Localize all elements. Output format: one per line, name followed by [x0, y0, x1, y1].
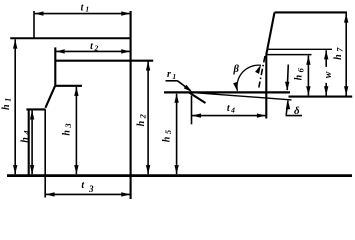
arrow t1 left: [35, 11, 44, 15]
label h6 (rotated): [294, 67, 306, 80]
line w extension y=49.3: [267, 48, 332, 50]
arrow t3 left: [46, 192, 55, 196]
r1 label underline: [166, 80, 178, 82]
label h1 (rotated): [1, 98, 13, 110]
tool left slanted edge: [266, 12, 274, 54]
svg-text:2: 2: [138, 113, 148, 119]
svg-text:4: 4: [230, 106, 235, 115]
svg-text:3: 3: [88, 184, 94, 194]
sloped back-taper edge (angle delta): [191, 92, 292, 100]
profile left vertical edge: [28, 109, 30, 175]
svg-text:h: h: [20, 137, 31, 143]
arrow w up: [324, 50, 328, 59]
profile chamfer slant: [45, 86, 55, 108]
extension line t3 left: [44, 109, 46, 197]
arrow h4 down: [30, 165, 34, 174]
arrow t4 right: [257, 113, 266, 117]
arrow h1 down: [13, 165, 17, 174]
label h7 (rotated): [333, 47, 345, 60]
arrow delta lower (points up at sloped line): [286, 100, 290, 109]
beta angle arc: [237, 65, 261, 91]
arrow t2 right: [121, 49, 130, 53]
svg-text:7: 7: [335, 47, 345, 52]
arrow h7 down: [344, 86, 348, 95]
r1 leader line: [178, 81, 191, 91]
extension line t1 left: [33, 11, 35, 38]
svg-text:5: 5: [163, 129, 173, 134]
dash-dot reference line for angle beta: [259, 56, 265, 88]
dimension line t2: [55, 50, 130, 52]
tool front face vertical / t4 right extension: [265, 55, 267, 119]
profile step line y=60.4 (h2 extension): [55, 60, 153, 62]
front relief slant under tip: [190, 93, 206, 103]
delta underline and leader: [286, 115, 303, 117]
arrow h5 up: [174, 94, 178, 103]
svg-text:1: 1: [3, 98, 13, 102]
label h2 (rotated): [136, 113, 148, 126]
arrow beta arc lower end: [233, 82, 239, 92]
label h4 (rotated): [20, 130, 32, 142]
svg-text:h: h: [161, 136, 172, 142]
arrow h6 down: [306, 86, 310, 95]
svg-text:t: t: [90, 41, 94, 52]
svg-text:h: h: [62, 130, 73, 136]
dimension line t3: [45, 193, 130, 195]
dimension line w: [325, 50, 327, 95]
profile bottom step line y=109.4: [26, 108, 45, 110]
dimension line t4: [192, 115, 266, 117]
arrow h1 up: [13, 40, 17, 49]
svg-text:δ: δ: [294, 105, 300, 117]
dimension line h5: [176, 94, 178, 174]
svg-text:r: r: [167, 69, 171, 80]
svg-text:h: h: [294, 74, 305, 80]
svg-text:3: 3: [63, 123, 73, 129]
svg-text:2: 2: [94, 43, 99, 52]
label w (rotated, on its line): [323, 67, 335, 83]
line h6 extension y=54.6: [266, 54, 312, 56]
svg-text:β: β: [233, 64, 240, 75]
svg-text:t: t: [81, 2, 85, 13]
arrow t3 right: [121, 192, 130, 196]
arrow t2 left: [56, 49, 65, 53]
profile top surface line (left figure): [10, 37, 130, 39]
arrow t1 right: [121, 11, 130, 15]
arrow beta arc upper end: [255, 64, 263, 74]
svg-text:4: 4: [21, 130, 31, 135]
profile step vertical edge at x=54.8: [54, 47, 56, 85]
dimension line h2: [147, 61, 149, 174]
arrow r1 leader: [184, 85, 193, 92]
svg-text:6: 6: [295, 67, 305, 72]
svg-text:h: h: [1, 104, 12, 110]
svg-text:w: w: [323, 71, 334, 78]
arrow h6 up: [306, 56, 310, 65]
arrow h2 down: [146, 165, 150, 174]
tool top edge: [275, 11, 348, 13]
svg-text:h: h: [333, 54, 344, 60]
tool right edge / h7 dimension line: [345, 12, 347, 96]
label h5 (rotated): [161, 129, 173, 142]
profile right edge / t1 t2 t3 extension at x=130.6: [130, 11, 132, 199]
cutting edge horizontal line (right figure, thick): [164, 91, 290, 93]
arrow h4 up: [30, 111, 34, 120]
base datum line (thick, full width): [7, 174, 352, 177]
dimension line h6: [307, 56, 309, 96]
arrow w down: [324, 86, 328, 95]
dimension line h3: [75, 87, 77, 174]
dimension line h4: [31, 110, 33, 174]
delta upper leader line: [287, 65, 288, 91]
extension line t4 left: [191, 96, 193, 125]
dimension line h1: [14, 39, 16, 174]
svg-text:1: 1: [172, 72, 176, 81]
arrow h7 up: [344, 14, 348, 23]
svg-text:t: t: [81, 180, 85, 191]
arrow t4 left: [192, 113, 201, 117]
arrow delta upper (points down at edge line): [285, 82, 289, 91]
dimension line t1: [34, 13, 131, 15]
svg-text:h: h: [136, 120, 147, 126]
svg-text:1: 1: [85, 5, 89, 14]
shank top line y=96.3: [289, 96, 353, 98]
label h3 (rotated): [62, 123, 74, 136]
arrow h5 down: [174, 165, 178, 174]
arrow h3 down: [74, 165, 78, 174]
arrow h3 up: [74, 87, 78, 96]
arrow h2 up: [146, 62, 150, 71]
profile step line y=85.8 (h3 extension): [55, 85, 82, 87]
